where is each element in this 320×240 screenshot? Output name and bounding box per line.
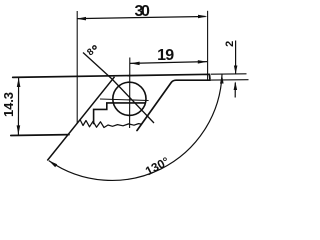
svg-text:14.3: 14.3 bbox=[1, 92, 16, 117]
svg-text:19: 19 bbox=[157, 47, 174, 64]
svg-text:130°: 130° bbox=[143, 154, 172, 178]
svg-text:2: 2 bbox=[224, 41, 236, 47]
svg-text:30: 30 bbox=[134, 3, 150, 20]
